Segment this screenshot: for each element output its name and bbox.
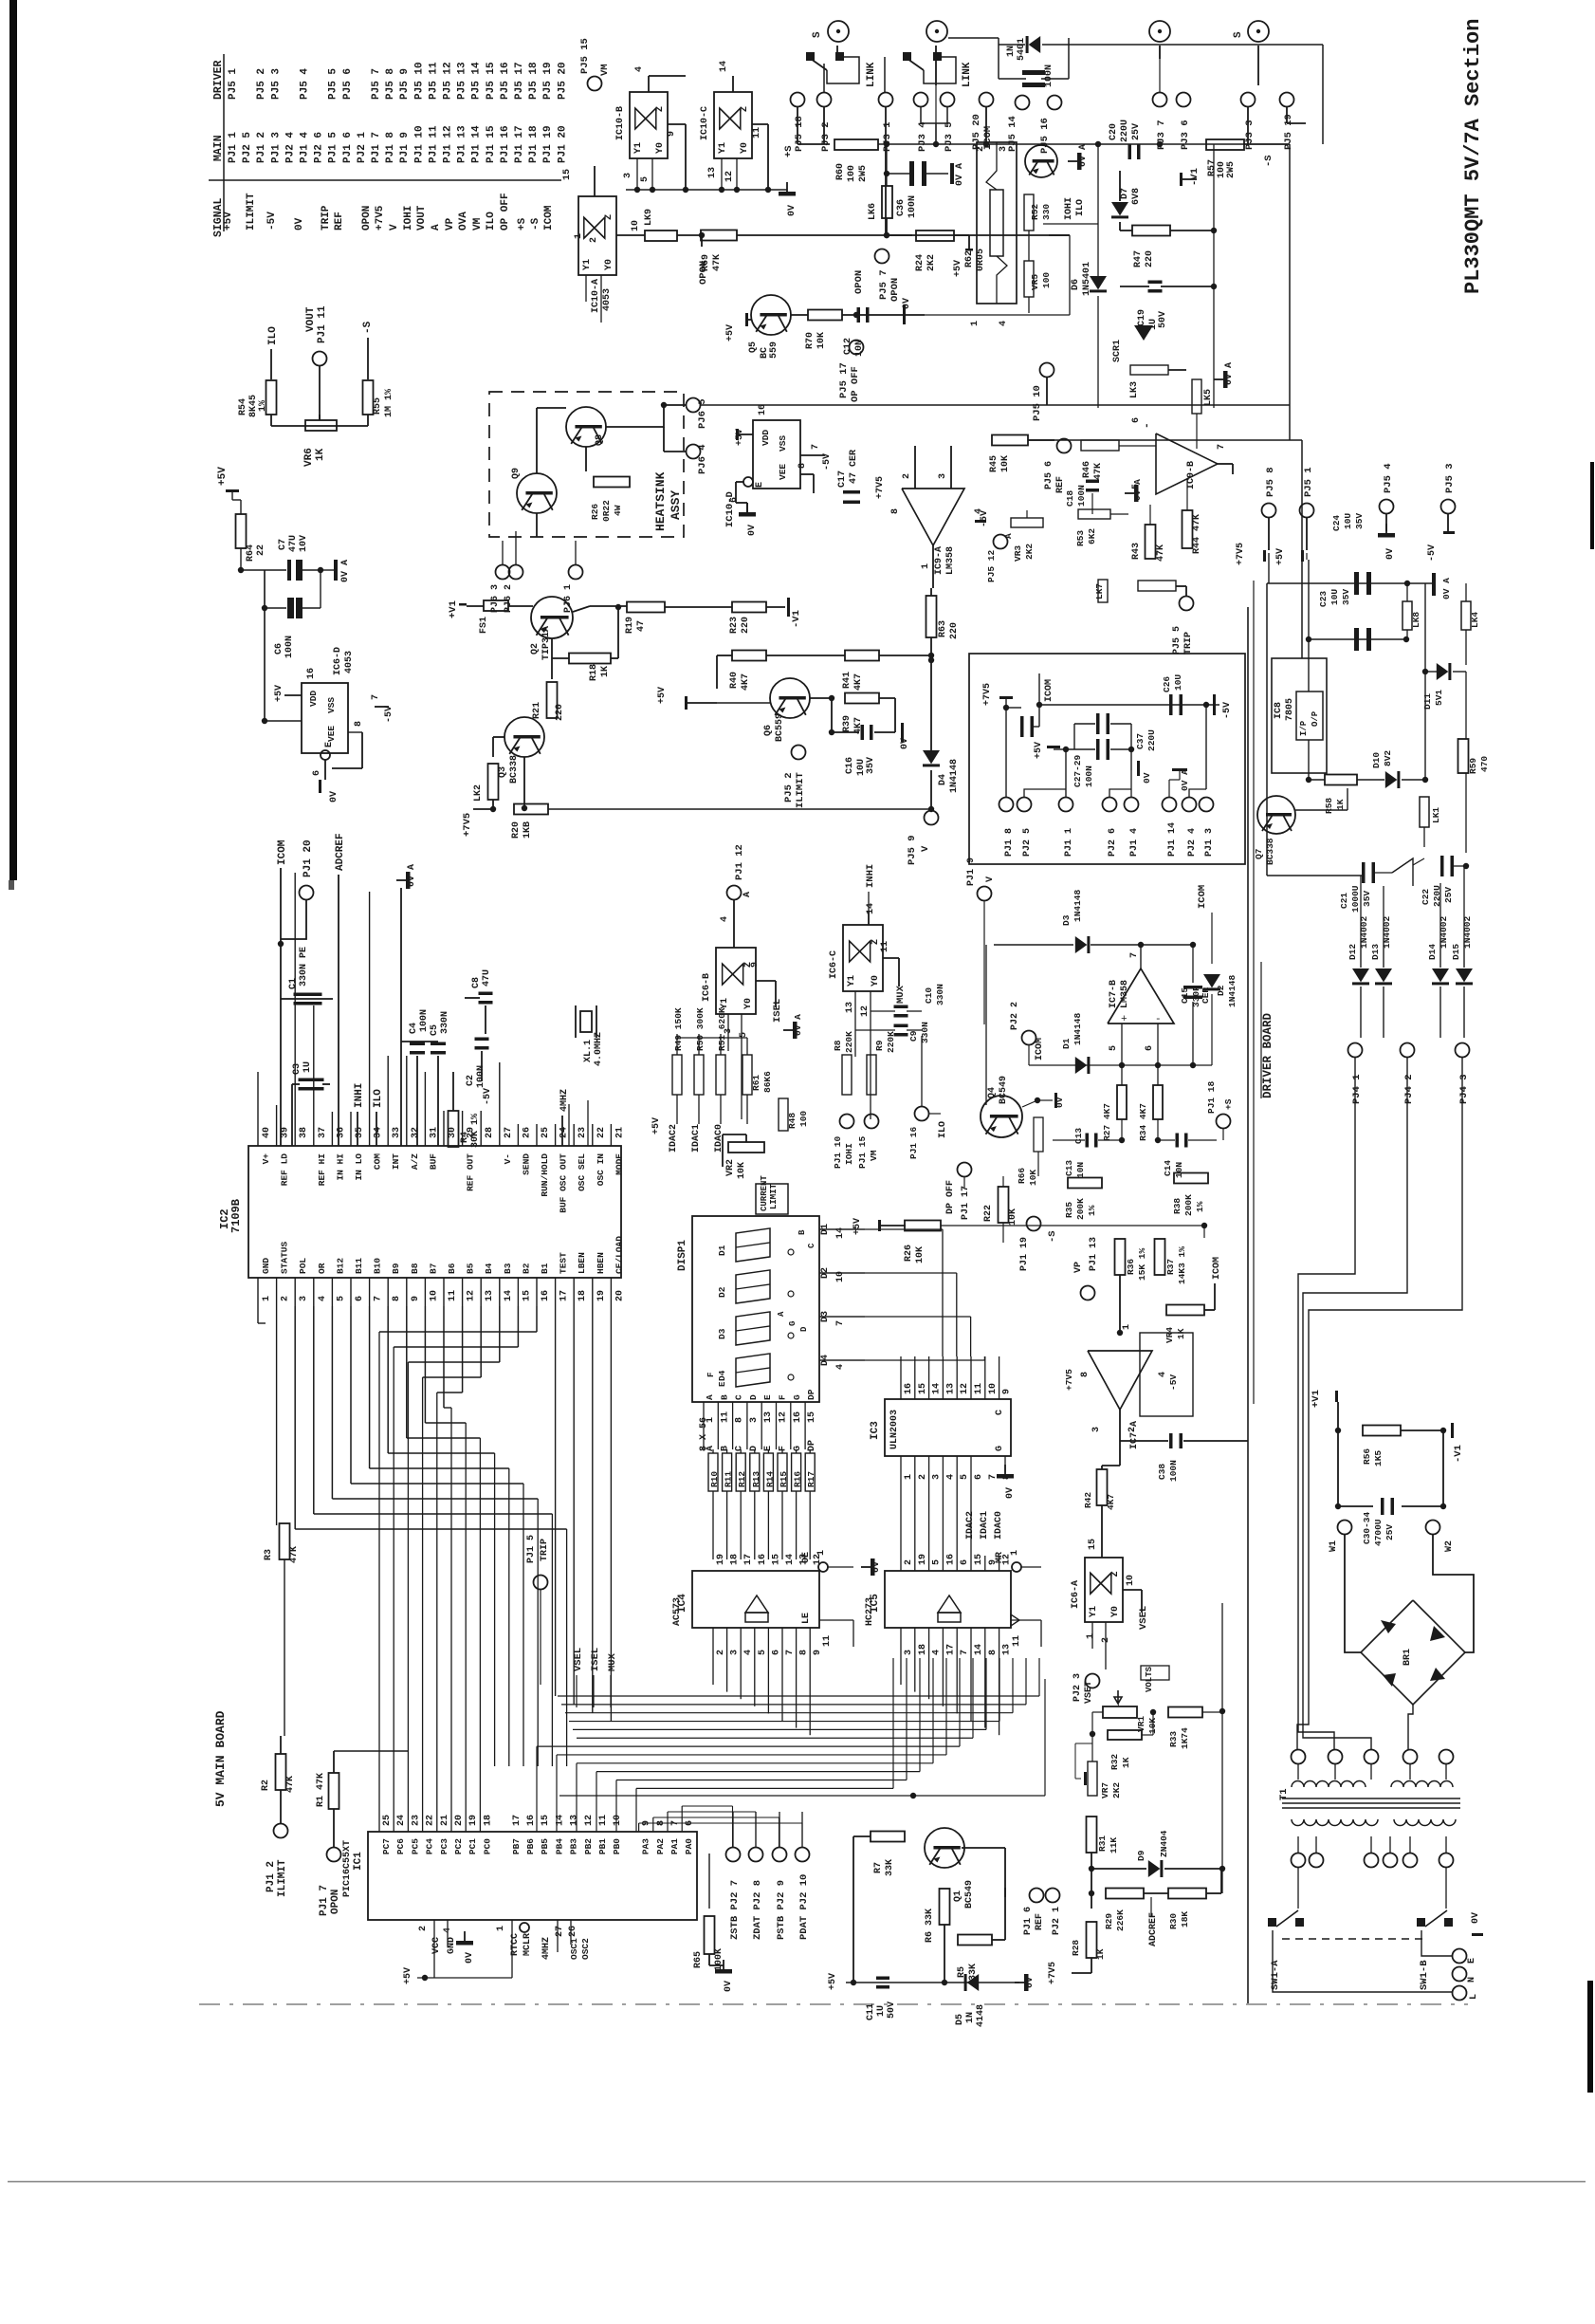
svg-text:4: 4 [835, 1364, 846, 1370]
svg-text:35V: 35V [866, 757, 876, 774]
svg-text:TEST: TEST [559, 1252, 569, 1274]
svg-text:OPON: OPON [361, 206, 373, 231]
svg-text:-S: -S [1263, 155, 1274, 167]
svg-text:4.0MHZ: 4.0MHZ [594, 1032, 604, 1066]
svg-text:R16: R16 [793, 1471, 803, 1487]
svg-text:1: 1 [970, 321, 981, 326]
svg-text:D4: D4 [717, 1370, 727, 1381]
svg-text:11: 11 [752, 127, 762, 138]
svg-text:-5V: -5V [1168, 1374, 1179, 1391]
svg-text:+5V: +5V [223, 212, 234, 231]
svg-text:7: 7 [835, 1320, 846, 1326]
svg-text:0R22: 0R22 [601, 500, 612, 522]
svg-text:E: E [1467, 1958, 1477, 1964]
svg-text:PJ1 1: PJ1 1 [228, 132, 239, 163]
svg-text:VP: VP [1073, 1262, 1084, 1273]
svg-text:PJ1 5: PJ1 5 [328, 132, 339, 163]
svg-text:86K6: 86K6 [762, 1071, 773, 1093]
svg-text:PJ5 18: PJ5 18 [528, 62, 540, 100]
svg-text:PJ2 5: PJ2 5 [242, 132, 253, 163]
svg-text:7: 7 [371, 694, 381, 700]
svg-text:4K7: 4K7 [741, 673, 751, 691]
svg-text:PJ6 1: PJ6 1 [563, 584, 574, 613]
svg-text:27: 27 [555, 1926, 565, 1937]
svg-text:C: C [995, 1410, 1005, 1415]
svg-text:D1: D1 [717, 1245, 727, 1256]
svg-text:100N: 100N [284, 636, 295, 658]
svg-text:C7: C7 [278, 539, 288, 550]
svg-text:21: 21 [614, 1127, 625, 1138]
svg-text:17: 17 [945, 1644, 956, 1655]
svg-text:0V: 0V [871, 1561, 882, 1573]
svg-text:1K: 1K [315, 448, 326, 461]
svg-text:VM: VM [869, 1150, 879, 1161]
svg-text:W2: W2 [1444, 1540, 1455, 1552]
svg-text:PB5: PB5 [540, 1838, 550, 1854]
svg-text:VEE: VEE [778, 464, 788, 480]
svg-text:7: 7 [1129, 952, 1140, 958]
svg-text:R53: R53 [1075, 530, 1086, 546]
svg-text:LK7: LK7 [1094, 583, 1105, 599]
svg-text:D: D [748, 1394, 759, 1400]
svg-text:19: 19 [918, 1554, 928, 1565]
svg-text:VR7: VR7 [1100, 1782, 1110, 1798]
svg-text:ADCREF: ADCREF [1148, 1912, 1159, 1946]
svg-text:4053: 4053 [602, 288, 613, 311]
svg-text:B2: B2 [521, 1263, 531, 1274]
svg-text:R33: R33 [1168, 1731, 1179, 1747]
svg-text:2K2: 2K2 [1111, 1782, 1122, 1798]
svg-text:PJ5 7: PJ5 7 [878, 269, 889, 300]
svg-text:PJ5 6: PJ5 6 [1044, 461, 1054, 489]
svg-text:R60: R60 [835, 163, 846, 180]
svg-text:PL330QMT 5V/7A Section: PL330QMT 5V/7A Section [1461, 19, 1485, 294]
svg-text:REF HI: REF HI [317, 1153, 327, 1186]
svg-text:1KB: 1KB [522, 821, 533, 839]
svg-text:D6: D6 [1071, 279, 1081, 290]
svg-text:IC1: IC1 [353, 1852, 364, 1871]
svg-text:VDD: VDD [761, 430, 771, 446]
svg-text:19: 19 [596, 1290, 607, 1301]
svg-text:27: 27 [504, 1127, 514, 1138]
svg-text:IOHI: IOHI [403, 206, 414, 231]
svg-text:PJ5 9: PJ5 9 [399, 68, 411, 100]
svg-text:PJ2 1: PJ2 1 [1052, 1907, 1062, 1935]
svg-text:6: 6 [355, 1296, 365, 1301]
svg-text:R30: R30 [1168, 1913, 1179, 1929]
svg-text:C9: C9 [908, 1030, 919, 1042]
svg-text:1N4148: 1N4148 [1227, 974, 1237, 1007]
svg-text:F: F [778, 1394, 788, 1400]
svg-text:9: 9 [411, 1296, 421, 1301]
svg-text:0V: 0V [1054, 1097, 1065, 1108]
svg-text:MODE: MODE [614, 1153, 624, 1175]
svg-text:8 X 56: 8 X 56 [699, 1417, 709, 1451]
svg-text:-5V: -5V [384, 706, 394, 723]
svg-text:30: 30 [448, 1127, 458, 1138]
svg-text:REF LD: REF LD [280, 1153, 290, 1187]
svg-text:R19: R19 [625, 617, 635, 634]
svg-text:10K: 10K [915, 1246, 926, 1263]
svg-text:C26: C26 [1162, 676, 1172, 692]
svg-text:R43: R43 [1131, 543, 1142, 560]
svg-text:2: 2 [918, 1474, 928, 1480]
svg-text:IOHI: IOHI [1064, 197, 1074, 220]
svg-text:Q6: Q6 [763, 725, 774, 736]
svg-text:PJ5 15: PJ5 15 [486, 62, 497, 100]
svg-text:BUF OSC OUT: BUF OSC OUT [559, 1153, 569, 1213]
svg-text:S: S [1233, 31, 1244, 38]
svg-text:PJ1 4: PJ1 4 [1129, 828, 1140, 857]
svg-text:C36: C36 [896, 199, 907, 216]
svg-text:PJ1 5: PJ1 5 [526, 1535, 537, 1563]
svg-text:4: 4 [720, 916, 730, 922]
svg-text:226K: 226K [1115, 1909, 1126, 1931]
svg-text:1%: 1% [258, 400, 268, 412]
svg-text:VOUT: VOUT [305, 306, 317, 332]
svg-text:100N: 100N [419, 1009, 430, 1032]
svg-text:-V1: -V1 [1189, 168, 1201, 186]
svg-text:8: 8 [890, 508, 901, 514]
svg-text:Y0: Y0 [655, 142, 666, 154]
svg-text:D3: D3 [1061, 914, 1072, 926]
svg-text:13: 13 [707, 167, 718, 178]
svg-text:PA2: PA2 [655, 1838, 666, 1854]
svg-text:D11: D11 [1422, 693, 1433, 710]
svg-text:R28: R28 [1071, 1940, 1081, 1956]
svg-text:559: 559 [769, 341, 779, 359]
svg-text:5: 5 [932, 1559, 943, 1565]
svg-text:PJ2 2: PJ2 2 [1010, 1002, 1020, 1030]
svg-text:1: 1 [1122, 1324, 1132, 1330]
svg-text:16: 16 [541, 1290, 551, 1301]
svg-text:CE/LOAD: CE/LOAD [614, 1236, 624, 1274]
svg-text:10: 10 [1126, 1575, 1136, 1586]
svg-text:15K 1%: 15K 1% [1137, 1247, 1147, 1281]
svg-text:0V: 0V [902, 298, 912, 309]
svg-text:OVA: OVA [458, 212, 469, 231]
svg-text:24: 24 [396, 1815, 407, 1826]
svg-text:100N: 100N [1076, 485, 1087, 507]
svg-text:PJ6 4: PJ6 4 [697, 444, 708, 474]
svg-text:1: 1 [574, 233, 584, 239]
svg-text:PJ3 5: PJ3 5 [944, 121, 955, 152]
svg-text:PJ3 2: PJ3 2 [820, 121, 832, 152]
svg-text:Y1: Y1 [720, 998, 730, 1009]
svg-text:2K2: 2K2 [1024, 544, 1035, 560]
svg-text:F: F [779, 1446, 789, 1451]
svg-text:PJ4 3: PJ4 3 [1458, 1074, 1470, 1104]
svg-text:C18: C18 [1065, 490, 1075, 507]
svg-text:PJ5 2: PJ5 2 [783, 772, 795, 802]
svg-text:CURRENT: CURRENT [760, 1175, 769, 1211]
svg-text:R45: R45 [989, 455, 999, 472]
svg-text:100: 100 [798, 1111, 809, 1127]
svg-text:PC4: PC4 [425, 1838, 435, 1854]
svg-text:1: 1 [1010, 1550, 1020, 1556]
svg-text:5401: 5401 [1017, 38, 1027, 61]
svg-text:1K5: 1K5 [1373, 1450, 1384, 1466]
svg-text:PJ5 16: PJ5 16 [1039, 118, 1051, 154]
svg-text:220U: 220U [1120, 120, 1130, 142]
svg-text:1M 1%: 1M 1% [384, 389, 394, 417]
svg-text:100N: 100N [1168, 1460, 1179, 1482]
svg-text:47K: 47K [289, 1546, 300, 1563]
svg-text:IDAC2: IDAC2 [669, 1124, 679, 1153]
svg-text:26: 26 [568, 1926, 578, 1937]
svg-text:R65: R65 [693, 1951, 704, 1968]
svg-text:VR2: VR2 [725, 1159, 736, 1176]
svg-text:PJ1 7: PJ1 7 [319, 1885, 330, 1916]
svg-text:R47: R47 [1133, 250, 1144, 267]
svg-text:2: 2 [281, 1296, 291, 1301]
svg-text:IC6-B: IC6-B [702, 973, 712, 1002]
svg-text:R9: R9 [874, 1040, 885, 1051]
svg-text:12: 12 [584, 1815, 595, 1826]
svg-text:+5V: +5V [217, 467, 229, 486]
svg-text:PJ1 4: PJ1 4 [300, 132, 311, 163]
svg-text:PJ1 13: PJ1 13 [457, 125, 468, 163]
svg-text:7109B: 7109B [229, 1199, 243, 1233]
svg-text:ILO: ILO [267, 326, 279, 345]
svg-text:IDAC1: IDAC1 [980, 1511, 990, 1540]
svg-text:8: 8 [797, 463, 808, 469]
svg-text:1N5401: 1N5401 [1082, 262, 1092, 296]
svg-text:PJ5 15: PJ5 15 [579, 38, 591, 74]
svg-text:PJ5 12: PJ5 12 [443, 62, 454, 100]
svg-text:39: 39 [281, 1127, 291, 1138]
svg-text:Y0: Y0 [604, 259, 614, 270]
svg-text:13: 13 [845, 1002, 855, 1013]
svg-text:C23: C23 [1318, 591, 1329, 607]
svg-text:LK6: LK6 [868, 203, 878, 220]
svg-text:PC2: PC2 [453, 1838, 464, 1854]
svg-text:22: 22 [256, 544, 266, 556]
svg-text:DP: DP [807, 1440, 817, 1451]
svg-text:11: 11 [822, 1635, 833, 1647]
svg-text:Z: Z [604, 214, 614, 220]
svg-text:PB4: PB4 [554, 1838, 564, 1854]
svg-text:B11: B11 [354, 1258, 364, 1274]
svg-text:6: 6 [1131, 417, 1142, 423]
svg-text:ADCREF: ADCREF [335, 833, 346, 871]
svg-text:0V A: 0V A [1180, 769, 1190, 791]
svg-text:10: 10 [613, 1815, 623, 1826]
svg-text:PJ1 3: PJ1 3 [270, 132, 282, 163]
svg-text:OP OFF: OP OFF [850, 366, 861, 402]
svg-text:22: 22 [426, 1815, 436, 1826]
svg-text:47K: 47K [285, 1776, 296, 1793]
svg-text:19: 19 [468, 1815, 479, 1826]
svg-text:B6: B6 [447, 1263, 457, 1274]
svg-text:PJ1 2: PJ1 2 [256, 132, 267, 163]
svg-text:5: 5 [960, 1474, 970, 1480]
svg-text:PJ5 12: PJ5 12 [986, 549, 997, 582]
svg-text:PJ2 5: PJ2 5 [1022, 828, 1033, 857]
svg-text:PC5: PC5 [410, 1838, 420, 1854]
svg-text:DRIVER BOARD: DRIVER BOARD [1261, 1012, 1274, 1098]
svg-text:2: 2 [716, 1650, 726, 1655]
svg-text:PJ5 14: PJ5 14 [471, 62, 483, 100]
svg-text:4MHZ: 4MHZ [541, 1937, 552, 1960]
svg-text:ZN404: ZN404 [1159, 1830, 1169, 1857]
svg-text:+5V: +5V [274, 685, 284, 702]
svg-text:-5V: -5V [822, 453, 833, 470]
svg-text:PIC16C55XT: PIC16C55XT [342, 1840, 353, 1897]
svg-text:PJ5 19: PJ5 19 [542, 62, 554, 100]
svg-text:LM358: LM358 [1120, 980, 1130, 1008]
svg-text:220U: 220U [1146, 729, 1157, 751]
svg-text:DISP1: DISP1 [677, 1240, 688, 1271]
svg-text:PJ1 14: PJ1 14 [1167, 822, 1178, 857]
svg-text:4: 4 [634, 66, 645, 72]
svg-text:PA3: PA3 [641, 1838, 651, 1854]
svg-text:A: A [705, 1394, 715, 1400]
svg-text:D10: D10 [1371, 752, 1382, 768]
svg-text:1N4148: 1N4148 [949, 759, 960, 793]
svg-text:D3: D3 [717, 1328, 727, 1339]
svg-text:PJ5 3: PJ5 3 [270, 68, 282, 100]
svg-text:PB1: PB1 [597, 1838, 608, 1854]
svg-text:18: 18 [483, 1815, 493, 1826]
svg-text:4: 4 [945, 1474, 956, 1480]
svg-text:220K: 220K [844, 1031, 854, 1053]
svg-text:Y1: Y1 [847, 975, 857, 987]
svg-text:C24: C24 [1331, 515, 1342, 531]
svg-text:LK4: LK4 [1470, 612, 1480, 628]
svg-text:D: D [799, 1326, 809, 1332]
svg-text:C13: C13 [1073, 1128, 1084, 1144]
svg-text:VOUT: VOUT [416, 205, 428, 231]
svg-text:25V: 25V [1384, 1524, 1395, 1540]
svg-text:PJ5 10: PJ5 10 [1032, 385, 1043, 421]
svg-text:R62: R62 [964, 250, 975, 267]
svg-text:10K: 10K [1028, 1170, 1038, 1186]
svg-text:9: 9 [667, 131, 677, 137]
svg-text:8: 8 [799, 1650, 810, 1655]
svg-text:+7V5: +7V5 [375, 205, 386, 231]
svg-text:E: E [718, 1381, 727, 1387]
svg-text:BC338: BC338 [509, 755, 520, 784]
svg-text:15: 15 [522, 1290, 532, 1301]
svg-text:VSS: VSS [778, 435, 788, 452]
svg-text:MR: MR [995, 1552, 1005, 1563]
svg-text:C16: C16 [845, 757, 855, 774]
svg-text:5: 5 [336, 1296, 346, 1301]
svg-text:+5V: +5V [725, 324, 736, 341]
svg-text:C10: C10 [924, 987, 934, 1004]
svg-text:LM358: LM358 [945, 546, 956, 575]
svg-text:220: 220 [949, 622, 960, 639]
svg-text:11: 11 [720, 1411, 730, 1423]
svg-text:14: 14 [785, 1554, 796, 1565]
svg-text:PJ5 5: PJ5 5 [1172, 626, 1182, 655]
svg-text:PJ1 18: PJ1 18 [528, 125, 540, 163]
svg-text:12: 12 [467, 1290, 477, 1301]
svg-text:POL: POL [298, 1258, 308, 1274]
svg-text:C13: C13 [1064, 1160, 1074, 1176]
svg-text:OPON: OPON [853, 270, 865, 294]
svg-text:PJ1 19: PJ1 19 [542, 125, 554, 163]
svg-text:-V1: -V1 [1453, 1445, 1464, 1463]
svg-text:G: G [792, 1394, 802, 1400]
svg-text:PJ1 12: PJ1 12 [443, 125, 454, 163]
svg-text:1K: 1K [1121, 1757, 1131, 1768]
svg-text:R14: R14 [764, 1471, 775, 1487]
svg-text:Y0: Y0 [740, 142, 750, 154]
svg-text:A/Z: A/Z [410, 1153, 420, 1170]
svg-text:BR1: BR1 [1402, 1649, 1413, 1666]
svg-text:R66: R66 [1017, 1168, 1027, 1184]
svg-text:PJ5 1: PJ5 1 [228, 68, 239, 100]
svg-text:R26: R26 [904, 1245, 914, 1262]
svg-text:12: 12 [860, 1005, 871, 1017]
svg-text:47 CER: 47 CER [849, 450, 859, 484]
svg-text:+5V: +5V [1034, 742, 1044, 759]
svg-text:14: 14 [504, 1290, 514, 1301]
svg-text:1K: 1K [1335, 799, 1346, 810]
svg-text:330N: 330N [440, 1011, 450, 1034]
svg-text:PJ5 4: PJ5 4 [300, 68, 311, 100]
svg-text:2W5: 2W5 [1226, 161, 1237, 178]
svg-text:13: 13 [763, 1411, 774, 1423]
svg-text:22: 22 [596, 1127, 607, 1138]
svg-text:1N4148: 1N4148 [1072, 1012, 1083, 1045]
svg-text:R24: R24 [915, 254, 926, 271]
svg-text:10N: 10N [1075, 1162, 1086, 1178]
svg-text:18: 18 [730, 1554, 741, 1565]
svg-text:MAIN: MAIN [212, 135, 225, 161]
svg-text:PJ5 20: PJ5 20 [971, 114, 982, 150]
svg-text:Y1: Y1 [582, 259, 593, 270]
svg-text:LINK: LINK [962, 62, 973, 87]
svg-text:1U: 1U [302, 1061, 313, 1073]
svg-text:PJ5 9: PJ5 9 [907, 835, 918, 865]
svg-text:R61: R61 [751, 1075, 761, 1091]
svg-text:OE: OE [801, 1552, 812, 1563]
svg-text:33K: 33K [885, 1859, 895, 1876]
svg-text:R13: R13 [751, 1471, 761, 1487]
svg-text:Z: Z [1110, 1571, 1121, 1577]
svg-text:4W: 4W [613, 505, 623, 516]
svg-text:11K: 11K [1109, 1837, 1119, 1854]
svg-text:BC549: BC549 [964, 1880, 975, 1909]
svg-text:11: 11 [448, 1290, 458, 1301]
svg-text:C17: C17 [837, 470, 848, 488]
svg-text:C38: C38 [1157, 1464, 1167, 1480]
svg-text:0V: 0V [1142, 772, 1152, 784]
svg-text:50V: 50V [1158, 311, 1168, 328]
svg-text:C4: C4 [409, 1023, 419, 1034]
svg-text:1000U: 1000U [1350, 885, 1361, 913]
svg-text:C21: C21 [1339, 893, 1349, 909]
svg-text:25V: 25V [1131, 123, 1142, 140]
svg-text:TRIP: TRIP [321, 205, 332, 231]
svg-text:E: E [324, 742, 335, 747]
svg-text:DP OFF: DP OFF [945, 1180, 956, 1214]
svg-text:8: 8 [1080, 1372, 1091, 1377]
svg-text:4: 4 [318, 1296, 328, 1301]
svg-text:100: 100 [847, 165, 857, 182]
svg-text:VM: VM [599, 64, 611, 76]
svg-text:A: A [777, 1311, 786, 1317]
svg-text:3: 3 [932, 1474, 943, 1480]
svg-text:R64: R64 [246, 544, 256, 562]
svg-text:8: 8 [988, 1650, 999, 1655]
svg-text:VR6: VR6 [303, 448, 315, 467]
svg-text:10: 10 [631, 220, 641, 231]
svg-text:PJ4 1: PJ4 1 [1351, 1074, 1363, 1104]
